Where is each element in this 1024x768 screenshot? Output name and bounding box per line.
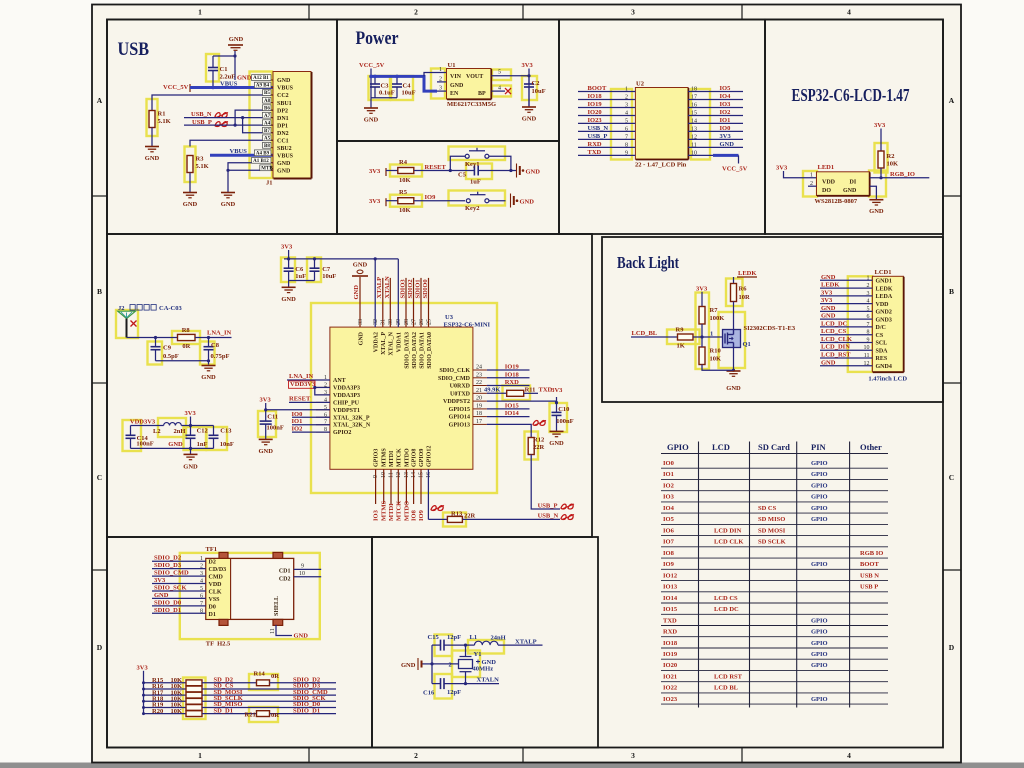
- svg-text:GND: GND: [237, 75, 252, 82]
- svg-text:B5: B5: [264, 91, 270, 96]
- capacitor C7: [310, 259, 320, 281]
- svg-text:31: 31: [381, 319, 387, 325]
- capacitor C13: [209, 426, 219, 449]
- svg-text:1uF: 1uF: [295, 273, 306, 280]
- svg-text:1: 1: [867, 275, 870, 281]
- ground (VDD caps): [184, 454, 198, 459]
- ratsnest USB_P mcu: [561, 504, 573, 509]
- svg-text:IO18: IO18: [505, 371, 520, 378]
- svg-text:SDIO0: SDIO0: [422, 279, 429, 298]
- svg-text:C10: C10: [558, 406, 569, 413]
- svg-text:R13: R13: [451, 511, 463, 518]
- svg-text:SD SCLK: SD SCLK: [758, 539, 786, 546]
- LED GND wire: [870, 186, 877, 200]
- section box Keys: [337, 141, 559, 234]
- svg-text:GPIO: GPIO: [811, 516, 828, 523]
- svg-text:11: 11: [691, 142, 697, 148]
- svg-text:1: 1: [439, 67, 442, 73]
- svg-text:3: 3: [631, 751, 635, 760]
- svg-text:SDIO_D2: SDIO_D2: [154, 555, 181, 562]
- svg-text:GND: GND: [281, 296, 296, 303]
- svg-text:1uF: 1uF: [470, 179, 481, 186]
- svg-text:U2: U2: [636, 81, 644, 88]
- svg-text:GND: GND: [183, 201, 198, 208]
- svg-text:GPIO: GPIO: [811, 662, 828, 669]
- wire VCC rail to ground: [370, 76, 372, 108]
- svg-text:B6: B6: [264, 106, 270, 111]
- svg-text:GPIO: GPIO: [811, 640, 828, 647]
- ferrite bead L2: [131, 425, 164, 427]
- svg-text:2: 2: [414, 8, 418, 17]
- resistor R14: [257, 680, 270, 686]
- svg-text:SDIO_D0: SDIO_D0: [154, 599, 181, 606]
- svg-text:SBU1: SBU1: [277, 101, 292, 107]
- ground (R3): [183, 193, 197, 198]
- svg-text:5: 5: [867, 306, 870, 312]
- svg-text:0R: 0R: [271, 712, 279, 719]
- ratsnest USB_N mcu: [561, 515, 573, 520]
- svg-text:3: 3: [200, 571, 203, 577]
- svg-text:CC1: CC1: [277, 138, 289, 144]
- svg-text:10: 10: [864, 345, 870, 351]
- svg-text:IO23: IO23: [588, 117, 603, 124]
- svg-text:13: 13: [691, 126, 697, 132]
- svg-text:R1: R1: [158, 111, 166, 118]
- svg-text:IO6: IO6: [663, 527, 675, 534]
- svg-text:Key1: Key1: [465, 161, 479, 168]
- svg-text:GPIO: GPIO: [811, 505, 828, 512]
- wire CC1 to R3: [190, 140, 273, 146]
- svg-text:C11: C11: [267, 414, 278, 421]
- svg-text:GPIO: GPIO: [811, 617, 828, 624]
- svg-text:GPIO13: GPIO13: [449, 422, 470, 428]
- svg-text:20: 20: [476, 396, 482, 402]
- svg-text:1: 1: [198, 8, 202, 17]
- svg-text:VBUS: VBUS: [277, 153, 294, 159]
- svg-text:Other: Other: [860, 442, 882, 452]
- svg-text:LEDK: LEDK: [876, 286, 893, 292]
- RF wire antenna to R8: [127, 337, 178, 339]
- svg-text:IO19: IO19: [505, 364, 520, 371]
- svg-text:USB_N: USB_N: [588, 125, 609, 132]
- svg-text:IO3: IO3: [663, 494, 675, 501]
- wire CC2 to R1: [152, 95, 273, 111]
- svg-text:24: 24: [476, 365, 482, 371]
- svg-text:VDDA2: VDDA2: [374, 332, 380, 352]
- resistor R15 row SD_D2: [142, 681, 145, 684]
- svg-text:GND2: GND2: [876, 310, 892, 316]
- ratsnest USB_N: [215, 113, 227, 118]
- TF1 connector body: [206, 558, 294, 619]
- LED DO stub: [808, 185, 817, 187]
- VBUS bus wire: [190, 86, 273, 89]
- resistor R11: [487, 392, 507, 394]
- svg-text:DN1: DN1: [277, 116, 289, 122]
- svg-text:12pF: 12pF: [447, 689, 461, 696]
- svg-text:MTCK: MTCK: [395, 501, 402, 521]
- svg-text:MTDI: MTDI: [388, 503, 395, 521]
- svg-text:SDIO_CMD: SDIO_CMD: [438, 376, 471, 382]
- svg-text:VCC_5V: VCC_5V: [722, 166, 748, 173]
- resistor R1: [149, 111, 155, 128]
- inductor L1: [464, 644, 467, 647]
- wire GPIO13 to R12: [487, 424, 531, 437]
- wire LCD_BL to R9: [631, 336, 678, 338]
- svg-text:GND: GND: [277, 161, 291, 167]
- bottom gray band: [0, 763, 1024, 768]
- U3 left pin names: [316, 379, 330, 381]
- svg-text:GND4: GND4: [876, 364, 892, 370]
- svg-text:33: 33: [358, 319, 364, 325]
- svg-text:VOUT: VOUT: [466, 74, 483, 80]
- svg-text:10uF: 10uF: [532, 88, 546, 95]
- svg-text:SDIO_DATA2: SDIO_DATA2: [412, 332, 418, 369]
- svg-text:VDD: VDD: [209, 582, 223, 588]
- svg-text:U0RXD: U0RXD: [450, 384, 471, 390]
- svg-text:SDIO_DATA3: SDIO_DATA3: [404, 332, 410, 369]
- svg-text:R14: R14: [254, 670, 266, 677]
- svg-text:D0: D0: [209, 604, 216, 610]
- svg-text:23: 23: [476, 372, 482, 378]
- svg-text:25: 25: [426, 319, 432, 325]
- svg-text:IO2: IO2: [720, 109, 731, 116]
- svg-text:MTMS: MTMS: [381, 500, 388, 521]
- svg-text:IO7: IO7: [663, 539, 675, 546]
- svg-text:SCL: SCL: [876, 341, 888, 347]
- resistor R21 row6: [257, 711, 270, 717]
- svg-text:VBUS: VBUS: [220, 81, 238, 88]
- svg-text:MTB: MTB: [261, 166, 273, 171]
- svg-text:RXD: RXD: [588, 141, 602, 148]
- svg-text:7: 7: [867, 322, 870, 328]
- svg-text:TXD: TXD: [588, 149, 602, 156]
- regulator U1 pin stubs: [437, 72, 447, 74]
- svg-text:12: 12: [864, 361, 870, 367]
- component highlight glows: [116, 54, 888, 722]
- capacitor C1: [208, 56, 218, 88]
- svg-text:3V3: 3V3: [137, 664, 149, 671]
- svg-text:40MHz: 40MHz: [473, 665, 494, 672]
- wire C1 top: [213, 55, 235, 57]
- svg-text:SI2302CDS-T1-E3: SI2302CDS-T1-E3: [744, 325, 796, 332]
- svg-text:5.1K: 5.1K: [196, 163, 209, 170]
- svg-text:CC2: CC2: [277, 93, 289, 99]
- svg-text:RXD: RXD: [663, 629, 677, 636]
- svg-text:GND1: GND1: [876, 279, 892, 285]
- svg-text:3: 3: [625, 102, 628, 108]
- svg-text:C: C: [97, 473, 102, 482]
- svg-text:IO20: IO20: [588, 109, 602, 116]
- capacitor C8: [204, 338, 214, 361]
- section box crystal: [372, 537, 598, 748]
- svg-text:MTMS: MTMS: [382, 448, 388, 467]
- ground (USB top): [234, 51, 236, 80]
- svg-text:A1 B12: A1 B12: [253, 159, 269, 164]
- ground (power input): [364, 108, 378, 113]
- svg-text:C3: C3: [381, 83, 390, 90]
- svg-text:SDIO3: SDIO3: [400, 279, 407, 299]
- U3 right lower row labels: [487, 408, 530, 410]
- svg-text:USB_P: USB_P: [538, 502, 558, 509]
- svg-text:GND: GND: [353, 285, 360, 300]
- svg-text:GPIO: GPIO: [811, 460, 828, 467]
- svg-text:GND: GND: [821, 313, 836, 320]
- svg-text:LCD_RST: LCD_RST: [821, 352, 851, 359]
- ground (Key1): [511, 170, 516, 172]
- svg-text:SBU2: SBU2: [277, 146, 292, 152]
- svg-text:SD MISO: SD MISO: [758, 516, 785, 523]
- svg-text:XTAL_32K_P: XTAL_32K_P: [333, 415, 370, 421]
- svg-text:BOOT: BOOT: [588, 85, 607, 92]
- svg-text:3V3: 3V3: [551, 387, 563, 394]
- svg-text:GND: GND: [145, 155, 160, 162]
- svg-text:GPIO: GPIO: [811, 651, 828, 658]
- svg-text:U3: U3: [445, 314, 454, 321]
- svg-text:IO2: IO2: [663, 482, 674, 489]
- svg-text:GND: GND: [183, 463, 198, 470]
- svg-text:3V3: 3V3: [874, 122, 886, 129]
- svg-text:SD CS: SD CS: [758, 505, 777, 512]
- svg-text:17: 17: [476, 419, 482, 425]
- wire Q1 source to ground: [733, 348, 735, 371]
- svg-text:D: D: [949, 643, 955, 652]
- svg-text:GPIO: GPIO: [811, 494, 828, 501]
- svg-text:TF H2.5: TF H2.5: [206, 641, 231, 648]
- ratsnest (GPIO9): [431, 506, 443, 511]
- VDD caps ground rail: [131, 447, 214, 449]
- svg-text:LCD_CLK: LCD_CLK: [821, 336, 852, 343]
- svg-text:9: 9: [867, 337, 870, 343]
- section box U2 connector: [559, 20, 765, 235]
- svg-text:LEDK: LEDK: [821, 282, 839, 289]
- LED1 body WS2812B: [817, 172, 870, 196]
- svg-text:A: A: [97, 96, 103, 105]
- svg-text:LCD_DC: LCD_DC: [821, 320, 848, 327]
- svg-text:11: 11: [864, 353, 870, 359]
- svg-text:A: A: [949, 96, 955, 105]
- svg-text:GPIO3: GPIO3: [374, 449, 380, 467]
- svg-text:3V3: 3V3: [185, 410, 197, 417]
- svg-text:LCD_DIN: LCD_DIN: [821, 344, 850, 351]
- svg-text:GND: GND: [364, 117, 379, 124]
- svg-text:22 - 1.47_LCD Pin: 22 - 1.47_LCD Pin: [635, 162, 687, 169]
- ratsnest D plus: [533, 421, 545, 426]
- svg-text:VIN: VIN: [450, 74, 462, 80]
- svg-text:21: 21: [476, 388, 482, 394]
- svg-text:VCC_5V: VCC_5V: [163, 84, 189, 91]
- svg-text:GPIO: GPIO: [811, 471, 828, 478]
- svg-text:ESP32-C6-LCD-1.47: ESP32-C6-LCD-1.47: [792, 85, 910, 105]
- section box title ESP32: [765, 20, 943, 235]
- svg-text:A4: A4: [264, 121, 271, 126]
- svg-text:WS2812B-0807: WS2812B-0807: [815, 198, 858, 205]
- svg-text:USB: USB: [118, 39, 150, 60]
- svg-text:XTAL_N: XTAL_N: [389, 331, 395, 355]
- svg-text:IO15: IO15: [663, 606, 678, 613]
- section box TF card: [107, 537, 372, 748]
- svg-text:7: 7: [625, 134, 628, 140]
- GPIO table header underline: [661, 453, 888, 455]
- svg-text:16: 16: [691, 102, 697, 108]
- crystal Y1: [465, 645, 467, 656]
- svg-text:SD MOSI: SD MOSI: [758, 527, 786, 534]
- svg-text:18: 18: [691, 87, 697, 93]
- svg-text:IO15: IO15: [505, 402, 520, 409]
- capacitor C9: [151, 338, 161, 361]
- svg-text:27: 27: [411, 319, 417, 325]
- svg-text:3: 3: [867, 291, 870, 297]
- svg-text:30: 30: [388, 319, 394, 325]
- wire R13 to USB_N: [462, 518, 560, 520]
- svg-text:0.1uF: 0.1uF: [379, 90, 395, 97]
- resistor R4: [398, 168, 414, 174]
- svg-text:GND: GND: [258, 448, 273, 455]
- VCC_5V bus wire: [370, 69, 372, 77]
- TF1 left pins: [152, 560, 206, 562]
- svg-text:IO1: IO1: [720, 117, 731, 124]
- svg-text:3V3: 3V3: [776, 165, 788, 172]
- svg-text:LCD DC: LCD DC: [714, 606, 739, 613]
- wire USB_P to DP1 DP2: [184, 124, 235, 126]
- svg-text:CD2: CD2: [279, 576, 291, 582]
- wire USB_N to DN1 DN2: [184, 117, 243, 119]
- wire R8 to LNA_IN: [195, 337, 232, 339]
- svg-text:10K: 10K: [887, 161, 899, 168]
- svg-text:GND: GND: [520, 199, 535, 206]
- svg-text:C12: C12: [197, 428, 208, 435]
- ground (LED1): [869, 200, 883, 205]
- resistor R17 row SD_MOSI: [142, 694, 145, 697]
- svg-text:GND: GND: [358, 331, 364, 345]
- wire L2 to 3V3 node: [181, 425, 213, 427]
- svg-text:GND: GND: [821, 274, 836, 281]
- svg-text:MTDO: MTDO: [403, 501, 410, 521]
- no-connect X (antenna): [131, 321, 137, 327]
- svg-text:J1: J1: [266, 180, 273, 187]
- svg-text:XTALN: XTALN: [384, 276, 391, 299]
- svg-text:CD/D3: CD/D3: [209, 567, 227, 573]
- section box MCU: [107, 234, 592, 537]
- svg-text:SDIO2: SDIO2: [407, 279, 414, 298]
- svg-text:XTAL_32K_N: XTAL_32K_N: [333, 423, 371, 429]
- svg-text:GND: GND: [450, 83, 464, 89]
- svg-text:IO9: IO9: [663, 561, 675, 568]
- U3 bottom pin wires: [375, 469, 377, 504]
- ground (C2): [522, 107, 536, 112]
- svg-text:SDIO_D1: SDIO_D1: [154, 607, 181, 614]
- ground (Q1): [727, 371, 741, 376]
- ground (C11): [259, 439, 273, 444]
- ratsnest USB_P: [215, 122, 227, 127]
- svg-text:26: 26: [419, 319, 425, 325]
- wire R6 to Q1 drain: [733, 302, 735, 331]
- svg-text:B: B: [949, 287, 954, 296]
- svg-text:USB_P: USB_P: [588, 133, 608, 140]
- svg-text:A9 B4: A9 B4: [256, 84, 270, 89]
- svg-text:24nH: 24nH: [491, 635, 506, 642]
- svg-text:LED1: LED1: [818, 164, 835, 171]
- svg-text:GND: GND: [720, 141, 735, 148]
- svg-text:CLK: CLK: [209, 589, 222, 595]
- svg-text:1: 1: [810, 173, 813, 179]
- svg-text:IO0: IO0: [720, 125, 731, 132]
- wire IO9 row: [414, 200, 465, 202]
- svg-text:BP: BP: [478, 91, 486, 97]
- svg-text:LCD BL: LCD BL: [714, 685, 739, 692]
- svg-text:IO3: IO3: [720, 101, 732, 108]
- svg-text:C15: C15: [428, 634, 440, 641]
- svg-text:IO13: IO13: [663, 584, 678, 591]
- ground (J1 GND pins): [221, 193, 235, 198]
- svg-text:Back Light: Back Light: [617, 253, 679, 272]
- svg-text:IO5: IO5: [720, 85, 732, 92]
- C6 C7 ground rail: [289, 280, 315, 282]
- svg-text:IO1: IO1: [663, 471, 674, 478]
- svg-text:17: 17: [691, 94, 697, 100]
- svg-text:Q1: Q1: [743, 341, 751, 348]
- wire RESET row: [414, 170, 475, 172]
- svg-text:IO19: IO19: [588, 101, 603, 108]
- svg-text:IO19: IO19: [663, 651, 678, 658]
- svg-text:SHELL: SHELL: [274, 596, 280, 616]
- TF1 mounting tabs: [219, 552, 283, 625]
- svg-text:100nF: 100nF: [556, 418, 573, 425]
- svg-text:100nF: 100nF: [267, 425, 284, 432]
- resistor R2: [880, 129, 882, 152]
- cap bottom rail to ground: [371, 97, 397, 99]
- svg-text:D/C: D/C: [876, 325, 886, 331]
- svg-text:1K: 1K: [677, 343, 685, 350]
- svg-text:IO8: IO8: [411, 509, 418, 521]
- svg-text:A5: A5: [264, 136, 271, 141]
- wire 3V3 to LED pin1: [784, 173, 817, 178]
- svg-text:D: D: [97, 643, 103, 652]
- svg-text:14: 14: [691, 118, 697, 124]
- resistor R6: [733, 277, 735, 284]
- svg-text:8: 8: [200, 608, 203, 614]
- svg-text:IO20: IO20: [663, 662, 677, 669]
- svg-text:22R: 22R: [533, 444, 545, 451]
- svg-text:SDIO_SCK: SDIO_SCK: [154, 584, 187, 591]
- wire R7 to gate node: [701, 324, 703, 337]
- resistor R19 row SD_MISO: [142, 706, 145, 709]
- svg-text:DP2: DP2: [277, 108, 288, 114]
- svg-text:15: 15: [691, 110, 697, 116]
- svg-text:CD1: CD1: [279, 569, 291, 575]
- svg-text:IO9: IO9: [425, 194, 437, 201]
- svg-text:6: 6: [200, 593, 203, 599]
- svg-text:GND: GND: [726, 385, 741, 392]
- 3V3 bus to VDDA pins: [288, 250, 290, 259]
- svg-text:GPIO9: GPIO9: [419, 449, 425, 467]
- svg-text:8: 8: [625, 142, 628, 148]
- svg-text:VDDA3P3: VDDA3P3: [333, 385, 360, 391]
- wire R1 to ground: [151, 128, 153, 147]
- svg-text:1: 1: [200, 556, 203, 562]
- resistor R5: [398, 198, 414, 204]
- svg-text:R3: R3: [196, 156, 205, 163]
- capacitor C12: [186, 426, 196, 449]
- svg-text:SD_D1: SD_D1: [214, 707, 234, 714]
- svg-text:Y1: Y1: [474, 651, 482, 658]
- svg-text:SDIO_DATA1: SDIO_DATA1: [419, 332, 425, 369]
- svg-text:XTALP: XTALP: [376, 277, 383, 299]
- U3 right pin names: [473, 369, 487, 371]
- svg-text:TF1: TF1: [206, 546, 218, 553]
- svg-text:ANT: ANT: [333, 378, 346, 384]
- wire GPIO12 to R13: [428, 518, 447, 520]
- svg-text:USB_N: USB_N: [538, 513, 559, 520]
